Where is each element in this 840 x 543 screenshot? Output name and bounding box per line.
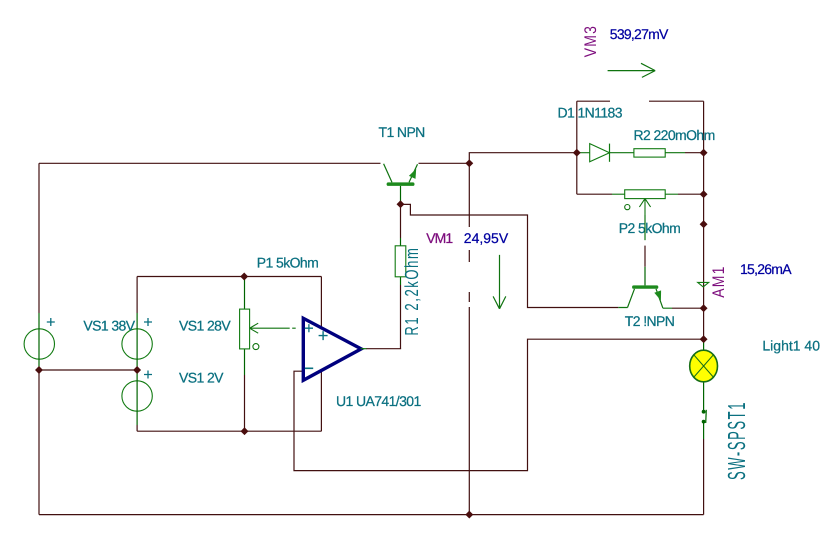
node T1 emitter junction xyxy=(465,159,473,167)
wire P2 wiper mid xyxy=(644,246,646,267)
svg-text:P2 5kOhm: P2 5kOhm xyxy=(619,220,680,236)
svg-text:VM3: VM3 xyxy=(580,25,599,57)
wire top-left horizontal xyxy=(39,162,381,164)
diode D1 triangle xyxy=(590,144,610,162)
transistor T1 base lead xyxy=(400,186,402,202)
switch SW-SPST1 contacts xyxy=(702,410,706,414)
op-amp U1 plus symbol xyxy=(319,331,328,340)
wire inner box bottom xyxy=(137,430,321,432)
wire R1 bottom link xyxy=(400,285,402,349)
node T2 emitter junction xyxy=(700,304,708,312)
svg-text:R1 2,2kOhm: R1 2,2kOhm xyxy=(401,247,423,336)
transistor T2 base lead xyxy=(644,267,646,286)
wire VM1 dash a xyxy=(468,250,470,262)
voltmeter VM1 arrow xyxy=(493,255,506,309)
svg-text:539,27mV: 539,27mV xyxy=(610,26,669,42)
node P1 top junction xyxy=(240,273,248,281)
wire VM1 vertical lower xyxy=(468,307,470,515)
op-amp U1 minus symbol xyxy=(305,367,313,369)
potentiometer P1 wiper circle xyxy=(253,344,259,350)
svg-text:T2 !NPN: T2 !NPN xyxy=(625,313,674,329)
transistor T1 emitter lead xyxy=(409,164,418,182)
svg-text:R2 220mOhm: R2 220mOhm xyxy=(634,127,715,143)
wire vertical behind op-amp xyxy=(320,277,322,432)
wire right rail lower xyxy=(703,439,705,515)
svg-text:24,95V: 24,95V xyxy=(464,230,509,246)
potentiometer P2 body xyxy=(625,190,666,199)
potentiometer P2 wiper circle xyxy=(625,205,630,210)
wire VM1 dash b xyxy=(468,292,470,302)
op-amp U1 plus input marker xyxy=(305,324,313,332)
potentiometer P1 top lead xyxy=(244,277,246,310)
resistor R1 top lead xyxy=(400,238,402,246)
resistor R1 body xyxy=(395,246,406,277)
svg-text:D1 1N1183: D1 1N1183 xyxy=(558,105,623,121)
svg-text:VS1 28V: VS1 28V xyxy=(179,318,231,334)
wire D1 box top-right segment xyxy=(649,100,704,102)
node T1 base junction xyxy=(397,200,405,208)
wire right rail upper xyxy=(703,101,705,339)
wire P2 right link xyxy=(678,193,704,195)
node rail R2 junction xyxy=(700,149,708,157)
wire feedback path xyxy=(294,339,704,470)
transistor T2 base bar xyxy=(632,285,658,288)
node bottom rail junction xyxy=(465,511,473,519)
wire VM1 vertical upper xyxy=(468,163,470,227)
svg-text:Light1 40: Light1 40 xyxy=(762,338,820,354)
wire D1 box left vertical xyxy=(576,101,578,194)
op-amp U1 output stub xyxy=(361,348,367,350)
potentiometer P2 right lead xyxy=(665,193,678,195)
resistor R1 bottom lead xyxy=(400,277,402,285)
svg-text:AM1: AM1 xyxy=(709,265,728,297)
lamp Light1 body xyxy=(690,350,718,382)
ammeter AM1 arrow symbol xyxy=(698,282,709,287)
node lamp top junction xyxy=(700,335,708,343)
wire T2 emitter to rail xyxy=(672,307,704,309)
op-amp U1 body xyxy=(303,318,361,380)
transistor T1 emitter arrow xyxy=(409,169,416,179)
lamp Light1 top lead xyxy=(703,339,705,350)
resistor R2 body xyxy=(634,149,665,157)
diode D1 anode lead xyxy=(578,152,590,154)
wire node to D1 box xyxy=(469,153,577,164)
svg-text:15,26mA: 15,26mA xyxy=(740,261,792,277)
voltage source VS1 38V circle xyxy=(122,329,152,359)
voltage source VS1 2V circle xyxy=(122,381,152,411)
plus sign VS1 2V xyxy=(144,371,152,379)
switch SW-SPST1 blade xyxy=(705,410,708,423)
wire VS1 38V top lead upper xyxy=(136,277,138,314)
wire sources bottom link xyxy=(39,369,137,371)
wire VS1 2V bottom stub xyxy=(136,425,138,431)
transistor T2 emitter lead xyxy=(656,289,672,308)
svg-text:SW-SPST1: SW-SPST1 xyxy=(722,401,751,480)
voltage source VS1 left circle xyxy=(24,329,54,359)
svg-text:VS1 2V: VS1 2V xyxy=(179,369,224,385)
svg-text:VM1: VM1 xyxy=(426,230,453,246)
voltage source middle leads xyxy=(136,313,138,425)
wire left rail upper xyxy=(38,163,40,313)
transistor T1 base bar xyxy=(387,182,415,186)
node left rail junction xyxy=(35,366,43,374)
node rail P2 junction xyxy=(700,190,708,198)
node P1 bottom junction xyxy=(241,427,249,435)
transistor T2 emitter arrow xyxy=(654,290,661,300)
node sources junction xyxy=(133,366,141,374)
voltage source VS1 left lead xyxy=(38,313,40,370)
wire D1 box top-left segment xyxy=(577,100,610,102)
wire T1 emitter to node xyxy=(419,162,470,164)
potentiometer P1 wiper arrow xyxy=(250,323,296,333)
wire P1 bottom xyxy=(244,375,246,431)
wire T1 base to T2 collector xyxy=(401,204,619,307)
wire op-amp output xyxy=(366,348,401,350)
transistor T1 collector lead xyxy=(384,164,392,183)
svg-text:U1 UA741/301: U1 UA741/301 xyxy=(336,393,421,409)
wire R1 top link xyxy=(400,204,402,238)
node rail mid junction xyxy=(700,220,708,228)
wire R2 to rail xyxy=(685,152,704,154)
potentiometer P1 bottom lead xyxy=(244,349,246,375)
wire left rail lower xyxy=(38,370,40,515)
node D1 box left junction xyxy=(573,149,581,157)
wire P2 left link xyxy=(577,193,612,195)
lamp Light1 bottom lead xyxy=(703,381,705,411)
resistor R2 right lead xyxy=(665,152,685,154)
transistor T2 collector lead xyxy=(618,289,634,308)
potentiometer P2 wiper line overlay xyxy=(644,215,646,240)
potentiometer P2 left lead xyxy=(612,193,625,195)
diode D1 cathode bar xyxy=(609,144,611,162)
lamp Light1 cross xyxy=(694,355,714,377)
switch SW-SPST1 bottom lead xyxy=(703,422,705,439)
wire bottom rail xyxy=(39,514,704,516)
potentiometer P2 wiper arrow xyxy=(639,199,650,241)
plus sign left source xyxy=(47,318,55,326)
voltmeter VM3 arrow xyxy=(608,63,656,77)
plus sign VS1 38V xyxy=(144,318,152,326)
potentiometer P1 body xyxy=(240,309,250,349)
diode D1 cathode lead xyxy=(610,152,634,154)
svg-text:VS1 38V: VS1 38V xyxy=(83,318,135,334)
svg-text:P1 5kOhm: P1 5kOhm xyxy=(257,254,318,270)
svg-text:T1 NPN: T1 NPN xyxy=(379,124,425,140)
wire inner box top xyxy=(137,276,321,278)
